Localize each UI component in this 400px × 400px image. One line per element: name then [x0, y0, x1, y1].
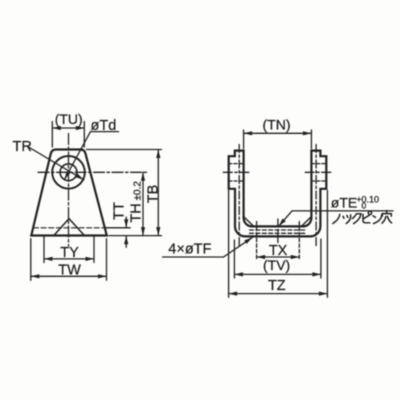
leader oTE: underline, horizontal and arrow to knock pin hole — [326, 210, 393, 212]
dim (TV): dimension line — [234, 273, 321, 275]
right view: pivot hole hidden lines right boss — [311, 163, 326, 165]
dim TZ: dimension line — [229, 293, 328, 295]
left view: hidden ledge line (dashed) — [34, 227, 107, 229]
svg-text:4×øTF: 4×øTF — [168, 242, 211, 258]
svg-text:øTE: øTE — [331, 194, 357, 210]
right view: center vertical centerline — [277, 219, 279, 244]
svg-text:TW: TW — [58, 262, 81, 278]
left view: vertical centerline — [68, 134, 70, 247]
left view: V notch triangle at bottom — [55, 219, 84, 235]
left view: clevis bracket outline (trapezoid body) — [31, 150, 107, 236]
svg-text:TB: TB — [146, 185, 162, 204]
dim TB/TH/TT: bottom extension line — [109, 235, 162, 237]
leader 4xoTF: underline and arrow to bottom left corner — [163, 256, 224, 258]
katakana pi — [363, 211, 372, 223]
right view: pivot axis centerline right — [305, 171, 332, 173]
dim TB: dimension line — [157, 150, 159, 236]
svg-text:(TN): (TN) — [263, 117, 291, 133]
right view: right oTF hole hidden line / TX extension — [298, 222, 300, 260]
right view: boss vertical centerline left — [238, 145, 240, 249]
right view: U channel outline — [229, 151, 327, 237]
svg-text:TT: TT — [112, 202, 128, 220]
dim (TU): dimension line — [52, 127, 84, 129]
svg-text:(TV): (TV) — [263, 257, 290, 273]
svg-text:+0.10: +0.10 — [356, 195, 379, 205]
right view: pivot hole hidden lines left boss — [229, 163, 244, 165]
svg-text:(TU): (TU) — [55, 111, 83, 127]
svg-text:TR: TR — [13, 139, 32, 155]
dim TY: dimension line — [44, 258, 94, 260]
right view: right inner corner chamfer (knock pin hole) — [301, 217, 311, 227]
left view: boss outer circle — [52, 156, 85, 189]
left view: horizontal centerline (also TH extension) — [38, 171, 147, 173]
right view: left oTF hole hidden line / TX extension — [256, 222, 258, 260]
dim TT: outside arrows — [125, 217, 127, 228]
dim (TN): dimension line — [244, 132, 312, 134]
dim (TU): extension lines — [51, 122, 53, 148]
right view: boss vertical centerline right — [315, 145, 317, 249]
dim (TN): extension lines — [243, 130, 245, 149]
svg-text:TY: TY — [60, 245, 79, 261]
dim TB: top extension line — [87, 149, 162, 151]
left view: ledge extension line for TT — [106, 227, 130, 229]
label knock pin hole (katakana drawn as paths) — [333, 211, 392, 224]
right view: hidden line in bottom wall (lower) — [250, 232, 306, 234]
right view: hidden line in bottom wall (upper) — [250, 229, 306, 231]
dim TZ: extension lines — [228, 191, 230, 298]
leader TR: to boss circle — [29, 147, 84, 180]
dim TY: extension lines — [43, 237, 45, 263]
kanji ana (hole) — [382, 211, 392, 224]
svg-text:0: 0 — [362, 201, 367, 211]
dim (TV): extension lines — [233, 240, 235, 278]
left view: pivot hole circle oTd — [60, 164, 77, 181]
svg-text:øTd: øTd — [91, 118, 117, 134]
dim TH: dimension line — [142, 172, 144, 235]
svg-text:TH ±0.2: TH ±0.2 — [129, 181, 145, 223]
katakana no — [333, 214, 340, 223]
right view: pivot axis centerline left — [223, 171, 250, 173]
dim TW: extension lines — [30, 239, 32, 280]
svg-text:TZ: TZ — [268, 278, 286, 294]
katakana small tsu — [343, 215, 351, 224]
leader oTd: underline and leader with arrow to hole — [91, 131, 119, 133]
dim TW: dimension line — [31, 275, 107, 277]
dim TX: dimension line — [257, 256, 300, 258]
katakana ku — [353, 214, 362, 224]
katakana n — [373, 214, 382, 223]
right view: left inner corner chamfer (knock pin hole) — [244, 217, 254, 227]
